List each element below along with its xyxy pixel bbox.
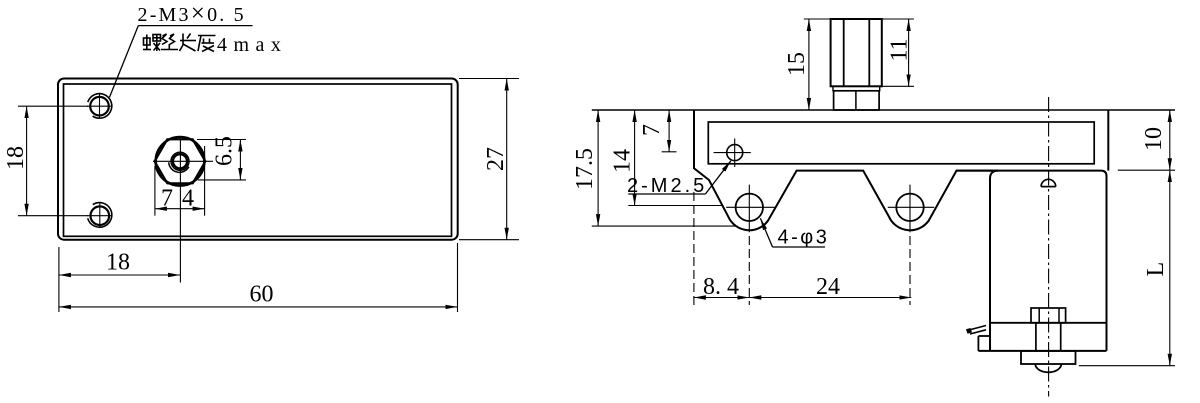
svg-text:60: 60 <box>250 282 274 308</box>
svg-text:14: 14 <box>610 149 636 173</box>
svg-text:7: 7 <box>639 124 665 136</box>
svg-text:4max: 4max <box>217 34 287 56</box>
svg-text:24: 24 <box>816 274 840 300</box>
svg-text:18: 18 <box>3 146 29 170</box>
svg-text:L: L <box>1143 262 1169 277</box>
svg-text:4-φ3: 4-φ3 <box>778 227 830 249</box>
svg-text:17.5: 17.5 <box>572 148 598 190</box>
svg-text:10: 10 <box>1141 127 1167 151</box>
svg-text:2-M3×0. 5: 2-M3×0. 5 <box>138 0 246 27</box>
svg-text:18: 18 <box>106 250 130 276</box>
svg-text:27: 27 <box>483 147 509 171</box>
svg-text:7: 7 <box>161 186 173 212</box>
svg-text:4: 4 <box>182 186 194 212</box>
svg-text:6.5: 6.5 <box>212 136 238 166</box>
svg-text:15: 15 <box>784 52 810 76</box>
svg-text:11: 11 <box>887 38 913 61</box>
svg-text:8. 4: 8. 4 <box>703 274 739 300</box>
svg-text:2-M2.5: 2-M2.5 <box>627 175 707 197</box>
